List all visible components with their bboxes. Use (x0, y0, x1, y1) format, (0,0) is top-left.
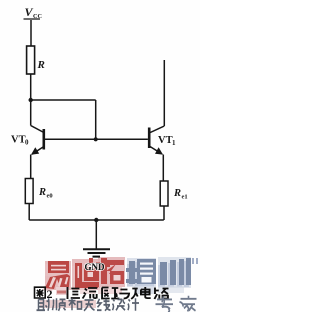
wire node A to VT0 collector (30, 100, 32, 126)
node G (94, 218, 98, 222)
label VT1 (158, 135, 176, 147)
svg-text:e1: e1 (182, 194, 188, 201)
transistor VT1 (149, 126, 164, 154)
footer 专 (gray, larger) (156, 296, 174, 312)
VT1 emitter arrow (155, 147, 163, 154)
watermark 迪 (red) (72, 258, 100, 289)
label Re1 (173, 188, 188, 201)
footer 设 (gray) (113, 299, 126, 310)
footer 和 (gray) (69, 298, 82, 310)
caption 恒 (68, 287, 80, 299)
svg-text:0: 0 (25, 139, 29, 147)
wire Re1 to ground rail (163, 206, 165, 220)
footer 计 (gray) (128, 298, 139, 311)
wire Re0 to ground rail (28, 204, 30, 221)
watermark TM mark (blue) (193, 258, 197, 264)
footer 天 (gray) (84, 300, 95, 311)
ground (83, 220, 110, 257)
svg-text:VT: VT (11, 135, 26, 146)
caption 驱 (102, 288, 119, 299)
watermark pink remnants (56, 286, 184, 295)
label VT0 (11, 135, 29, 147)
wire VT1 collector up (163, 60, 165, 126)
footer 射 (gray) (37, 298, 50, 311)
wire VT0 emitter to Re0 (30, 155, 32, 179)
watermark 训 (blue) (158, 258, 191, 287)
wire R to node A (30, 74, 32, 100)
power Vcc (25, 5, 42, 20)
svg-text:R: R (37, 59, 45, 71)
resistor Re1 (160, 181, 168, 206)
watermark 培 (blue) (126, 259, 156, 286)
wire ground rail (29, 219, 164, 221)
transistor VT0 (31, 126, 44, 155)
label Re0 (38, 187, 53, 200)
watermark 拓 (red) (98, 258, 124, 287)
svg-text:GND: GND (85, 262, 106, 272)
watermark 易 (red) (43, 261, 70, 291)
svg-text:1: 1 (172, 139, 176, 147)
wire node A right (31, 99, 96, 101)
wire base rail (45, 138, 148, 140)
VT0 emitter arrow (31, 147, 39, 155)
caption 动 (119, 289, 137, 300)
caption 图 (35, 287, 46, 298)
node A (29, 98, 33, 102)
caption 路 (154, 288, 168, 300)
wire down to node B (95, 100, 97, 139)
svg-text:R: R (38, 187, 46, 198)
svg-text:R: R (173, 188, 181, 199)
resistor R (27, 46, 35, 74)
footer red remnant tint (40, 300, 96, 308)
caption 电 (141, 287, 151, 298)
svg-text:e0: e0 (47, 193, 53, 200)
Vcc underline (24, 18, 41, 20)
wire VT1 emitter to Re1 (162, 155, 164, 182)
footer 频 (gray) (53, 298, 66, 311)
node B (94, 137, 98, 141)
wire Vcc to R (30, 20, 32, 46)
footer 家 (gray, larger) (180, 296, 197, 312)
caption 流 (83, 288, 98, 299)
watermark base tint (45, 257, 191, 290)
svg-text:2: 2 (47, 287, 53, 301)
resistor Re0 (25, 179, 33, 204)
svg-text:VT: VT (158, 135, 173, 146)
footer 线 (gray) (97, 299, 111, 311)
